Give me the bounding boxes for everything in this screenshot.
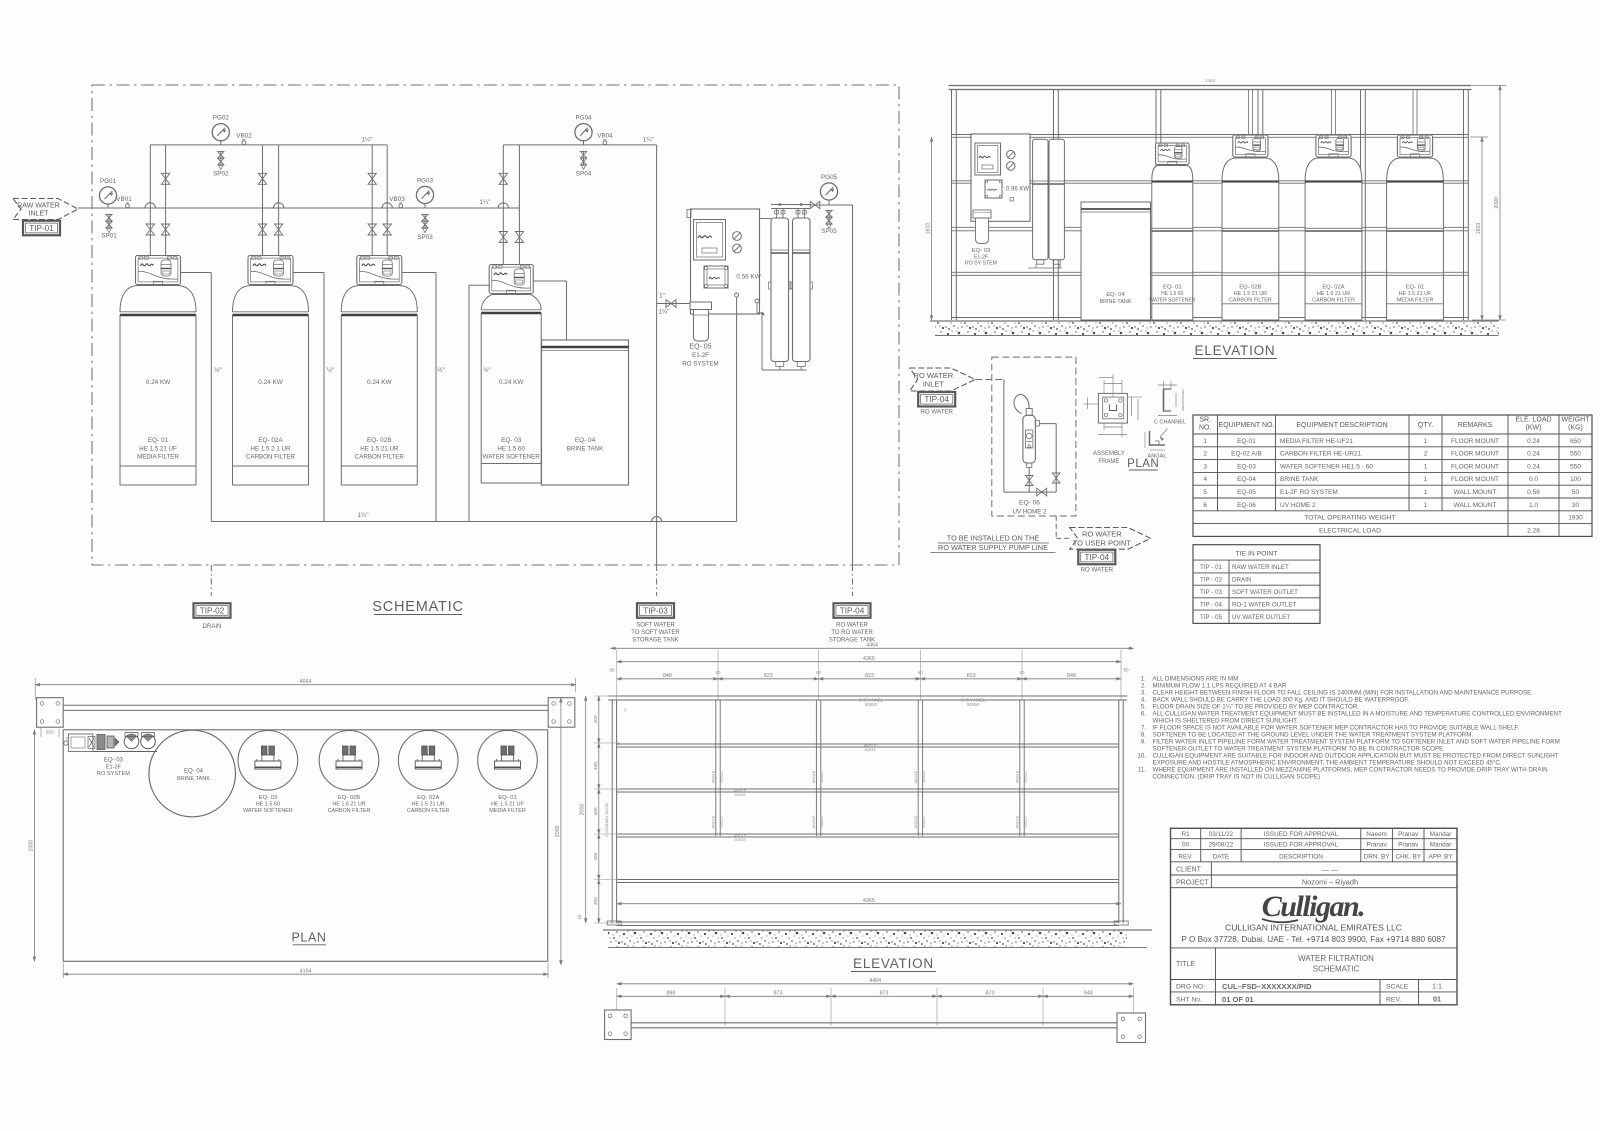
svg-text:BRINE TANK: BRINE TANK: [177, 776, 210, 782]
svg-text:FLOOR MOUNT: FLOOR MOUNT: [1451, 438, 1499, 445]
svg-text:MEDIA FILTER: MEDIA FILTER: [489, 808, 526, 814]
svg-text:TO SOFT WATER: TO SOFT WATER: [631, 630, 680, 636]
svg-text:5.: 5.: [1141, 704, 1146, 711]
svg-text:½": ½": [327, 366, 335, 374]
svg-text:10.: 10.: [1137, 753, 1146, 760]
svg-text:SOFT WATER: SOFT WATER: [636, 623, 675, 629]
svg-text:FILTER WATER INLET PIPELINE FO: FILTER WATER INLET PIPELINE FORM WATER T…: [1153, 739, 1560, 746]
svg-text:C CHANNEL 50X50: C CHANNEL 50X50: [605, 803, 609, 837]
sample point SP02: [213, 151, 229, 178]
svg-text:948: 948: [1084, 991, 1093, 997]
svg-text:DESCRIPTION: DESCRIPTION: [1279, 854, 1323, 861]
svg-text:PG02: PG02: [213, 115, 230, 122]
svg-text:EQ- 03: EQ- 03: [1163, 285, 1181, 291]
svg-text:0.56: 0.56: [1527, 489, 1540, 496]
flag RAW WATER INLET: [13, 199, 78, 220]
pipe drain lateral EQ-02B: [402, 273, 445, 522]
elevation brine tank EQ-04: [1081, 202, 1151, 320]
tie-in TIP-04 box: [829, 603, 875, 643]
svg-text:WATER SOFTENER HE1.5 - 60: WATER SOFTENER HE1.5 - 60: [1280, 463, 1373, 470]
schematic boundary (dash-dot border): [92, 85, 899, 565]
svg-text:50X25: 50X25: [820, 817, 824, 828]
svg-text:UV HOME 2: UV HOME 2: [1012, 509, 1047, 516]
svg-text:10: 10: [577, 914, 582, 919]
svg-text:PG04: PG04: [575, 115, 592, 122]
svg-text:1¼": 1¼": [480, 199, 491, 206]
pipe membrane top manifold: [771, 203, 823, 218]
tie-in TIP-01: [23, 221, 60, 236]
elevation frame top beam: [949, 78, 1472, 90]
svg-text:HE 1.5 21 UF: HE 1.5 21 UF: [1399, 291, 1432, 297]
tie-in TIP-04 (user point): [1078, 550, 1115, 574]
svg-text:EQ-01: EQ-01: [1237, 438, 1256, 445]
svg-text:1": 1": [659, 293, 665, 300]
cartridge prefilter EQ-05: [682, 302, 718, 368]
svg-text:TO RO WATER: TO RO WATER: [831, 630, 873, 636]
plan platform rectangle: [63, 730, 548, 962]
svg-text:CUL–FSD–XXXXXXX/PID: CUL–FSD–XXXXXXX/PID: [1222, 982, 1312, 991]
svg-text:TIP - 03: TIP - 03: [1200, 589, 1222, 596]
svg-text:0.24 KW: 0.24 KW: [258, 379, 283, 386]
svg-text:4164: 4164: [300, 968, 312, 974]
tie-in drop TIP-02: [210, 565, 212, 596]
frame dimension 4464: [611, 643, 1134, 650]
elevation ground hatch: [930, 321, 1499, 336]
svg-text:PG05: PG05: [821, 174, 838, 181]
svg-text:TIP - 01: TIP - 01: [1200, 564, 1222, 571]
pressure gauge PG03: [416, 178, 433, 209]
svg-text:50X50: 50X50: [865, 702, 878, 707]
svg-text:SCALE: SCALE: [1386, 984, 1409, 991]
svg-text:PG01: PG01: [100, 178, 117, 185]
svg-text:EQUIPMENT NO.: EQUIPMENT NO.: [1219, 422, 1275, 429]
svg-text:VB01: VB01: [116, 196, 132, 203]
c-channel detail: [1154, 381, 1186, 426]
note to be installed: [931, 534, 1056, 553]
svg-text:RO WATER: RO WATER: [920, 409, 953, 416]
beam plan rail: [625, 1023, 1129, 1031]
svg-text:SP02: SP02: [213, 171, 229, 178]
pipe risers tank EQ-02A: [258, 145, 283, 256]
UV unit boundary dashed box: [992, 357, 1076, 516]
angle detail: [1145, 429, 1168, 460]
svg-text:ALL CULLIGAN WATER TREATMENT E: ALL CULLIGAN WATER TREATMENT EQUIPMENT M…: [1153, 711, 1563, 718]
plan top rail: [47, 705, 561, 710]
svg-text:2000: 2000: [580, 804, 586, 816]
tie-in TIP-02 box: [194, 603, 231, 630]
svg-text:EQ- 01: EQ- 01: [498, 795, 516, 801]
title PLAN detail: [1127, 458, 1159, 470]
svg-text:50X25: 50X25: [1024, 772, 1028, 783]
valve break VB02: [236, 132, 252, 144]
svg-text:CULLIGAN INTERNATIONAL EMIRATE: CULLIGAN INTERNATIONAL EMIRATES LLC: [1225, 923, 1402, 933]
svg-text:HE 1.5 21 UR: HE 1.5 21 UR: [332, 802, 365, 808]
svg-text:2: 2: [1203, 451, 1207, 458]
tie-in drop TIP-03: [656, 565, 658, 596]
svg-text:EQ- 01: EQ- 01: [148, 437, 169, 444]
svg-text:1:1: 1:1: [1432, 982, 1442, 991]
svg-text:50: 50: [609, 668, 615, 673]
svg-text:ELEVATION: ELEVATION: [1195, 343, 1276, 358]
svg-text:ASSEMBLY: ASSEMBLY: [1093, 451, 1125, 457]
svg-text:Nozomi – Riyadh: Nozomi – Riyadh: [1302, 878, 1358, 887]
svg-text:1610: 1610: [926, 223, 932, 235]
svg-text:7.: 7.: [1141, 725, 1146, 732]
svg-text:TO BE INSTALLED ON THE: TO BE INSTALLED ON THE: [947, 534, 1040, 543]
svg-text:DRAIN: DRAIN: [1232, 577, 1251, 584]
svg-text:EQ- 04: EQ- 04: [184, 769, 204, 775]
tank EQ-01 media filter: [120, 256, 196, 486]
svg-text:CARBON FILTER: CARBON FILTER: [1229, 297, 1272, 303]
svg-text:HE 1.5 21 UR: HE 1.5 21 UR: [412, 802, 445, 808]
svg-text:NO.: NO.: [1199, 425, 1212, 432]
svg-text:898: 898: [666, 991, 675, 997]
svg-text:CULLIGAN EQUIPMENT ARE SUITABL: CULLIGAN EQUIPMENT ARE SUITABLE FOR INDO…: [1153, 753, 1559, 760]
svg-text:INLET: INLET: [923, 379, 945, 388]
svg-text:0.0: 0.0: [1529, 476, 1538, 483]
frame end posts: [607, 700, 1128, 925]
svg-text:2000: 2000: [555, 825, 561, 837]
svg-text:WATER FILTRATION: WATER FILTRATION: [1298, 954, 1374, 963]
svg-text:1: 1: [1424, 438, 1428, 445]
svg-text:400: 400: [593, 852, 599, 860]
pipe drain lateral EQ-01: [181, 273, 222, 522]
plan RO pump assembly: [64, 733, 157, 752]
svg-text:C CHANNEL: C CHANNEL: [1154, 420, 1186, 426]
svg-text:6: 6: [1203, 502, 1207, 509]
svg-text:HE 1.5 2 1 UR: HE 1.5 2 1 UR: [251, 446, 291, 453]
valve break VB01: [116, 196, 132, 208]
pressure gauge PG01: [99, 178, 116, 208]
plan tank circle EQ-02A: [398, 731, 458, 815]
svg-text:1¼": 1¼": [643, 136, 654, 143]
svg-text:DRG NO:: DRG NO:: [1176, 984, 1205, 991]
svg-text:60: 60: [716, 670, 721, 675]
svg-text:1930: 1930: [1568, 515, 1583, 522]
sample point SP03: [417, 214, 433, 241]
elevation carbon filter EQ-02B: [1222, 90, 1279, 321]
pipe soft water feed riser: [656, 145, 658, 565]
tie in point table: [1193, 545, 1320, 624]
svg-text:400: 400: [593, 762, 599, 770]
beam plan end plate right: [1117, 1013, 1146, 1043]
svg-text:RO WATER SUPPLY PUMP LINE: RO WATER SUPPLY PUMP LINE: [938, 543, 1048, 552]
svg-text:WALL MOUNT: WALL MOUNT: [1454, 502, 1497, 509]
svg-text:TIP - 04: TIP - 04: [1200, 602, 1222, 609]
svg-text:HE 1.5 21 UR: HE 1.5 21 UR: [360, 446, 399, 453]
svg-text:ANGLE: ANGLE: [812, 815, 816, 828]
tank EQ-04 brine tank: [542, 340, 629, 485]
svg-text:3: 3: [1203, 463, 1207, 470]
svg-text:(KG): (KG): [1568, 425, 1583, 432]
pipe RO product to TIP-04: [852, 205, 854, 565]
svg-text:1: 1: [1424, 489, 1428, 496]
svg-text:TO USER POINT: TO USER POINT: [1073, 538, 1132, 547]
svg-text:RO WATER: RO WATER: [836, 623, 868, 629]
svg-text:HE 1.5 21 UF: HE 1.5 21 UF: [139, 446, 177, 453]
svg-text:ISSUED FOR APPROVAL: ISSUED FOR APPROVAL: [1264, 831, 1339, 838]
pipe size label: [361, 136, 372, 143]
plan rail end plate left: [37, 698, 64, 728]
plan dimension 250: [41, 727, 59, 737]
svg-text:APP. BY: APP. BY: [1428, 854, 1453, 861]
svg-text:EQ-04: EQ-04: [1237, 476, 1256, 483]
svg-text:50X25: 50X25: [922, 772, 926, 783]
svg-text:823: 823: [967, 673, 976, 679]
svg-text:400: 400: [593, 715, 599, 723]
svg-text:CARBON FILTER: CARBON FILTER: [246, 453, 296, 460]
svg-text:ANGLE: ANGLE: [1016, 815, 1020, 828]
plan RO pump labels: [97, 758, 130, 778]
svg-text:CARBON FILTER: CARBON FILTER: [407, 808, 450, 814]
svg-text:TIP-04: TIP-04: [840, 607, 865, 616]
membrane vessels: [769, 218, 813, 367]
pipe RO water into UV: [975, 380, 1004, 493]
svg-text:4365: 4365: [863, 656, 875, 662]
pipe risers softener EQ-03: [499, 145, 523, 265]
svg-text:CHK. BY: CHK. BY: [1395, 854, 1421, 861]
svg-text:PROJECT: PROJECT: [1176, 880, 1209, 887]
svg-text:1¼": 1¼": [659, 309, 670, 316]
elevation RO wall panel: [971, 134, 1030, 221]
svg-text:EQ- 02A: EQ- 02A: [1322, 285, 1344, 291]
pipe RO drain: [736, 297, 738, 522]
title block: [1171, 828, 1458, 1005]
svg-text:RAW WATER INLET: RAW WATER INLET: [1232, 564, 1289, 571]
svg-text:CARBON FILTER: CARBON FILTER: [355, 453, 405, 460]
RO system panel EQ-05: [687, 209, 762, 314]
pipe drain manifold: [211, 512, 736, 522]
elevation softener EQ-03: [1149, 143, 1196, 320]
pipe size label: [643, 136, 654, 143]
svg-text:INLET: INLET: [29, 211, 50, 218]
sample point SP01: [101, 214, 117, 240]
svg-text:½": ½": [437, 366, 445, 374]
svg-text:1603: 1603: [1476, 223, 1482, 235]
svg-text:RO SY STEM: RO SY STEM: [965, 261, 997, 267]
svg-text:MEDIA FILTER: MEDIA FILTER: [137, 453, 179, 460]
svg-text:CARBON FILTER HE-UR21: CARBON FILTER HE-UR21: [1280, 451, 1362, 458]
general notes: [1137, 676, 1562, 781]
beam plan end plate left: [605, 1010, 632, 1040]
svg-text:9.: 9.: [1141, 739, 1146, 746]
pipe drain lateral EQ-03 softener: [469, 285, 491, 521]
pressure gauge PG02: [212, 115, 229, 145]
svg-text:½": ½": [214, 366, 222, 374]
svg-text:E1-2F RO SYSTEM: E1-2F RO SYSTEM: [1280, 489, 1338, 496]
svg-text:ANGLE: ANGLE: [914, 770, 918, 783]
svg-text:MINIMUM FLOW 1.1 LPS REQUIRED: MINIMUM FLOW 1.1 LPS REQUIRED AT 4 BAR: [1153, 683, 1287, 690]
svg-text:TITLE: TITLE: [1176, 961, 1195, 968]
svg-text:E1-2F: E1-2F: [974, 254, 988, 260]
svg-text:BRINE TANK: BRINE TANK: [1280, 476, 1319, 483]
svg-text:848: 848: [1067, 673, 1076, 679]
svg-text:823: 823: [764, 673, 773, 679]
svg-text:E1-2F: E1-2F: [692, 352, 709, 359]
svg-text:4464: 4464: [869, 978, 881, 984]
svg-text:EQ-06: EQ-06: [1237, 502, 1256, 509]
svg-text:1¼": 1¼": [361, 136, 372, 143]
svg-text:EQ- 06: EQ- 06: [1019, 500, 1040, 507]
svg-text:RO-1 WATER OUTLET: RO-1 WATER OUTLET: [1232, 602, 1297, 609]
svg-text:FRAME: FRAME: [1098, 459, 1119, 465]
svg-text:HE 1.5 60: HE 1.5 60: [256, 802, 280, 808]
svg-text:CARBON FILTER: CARBON FILTER: [1312, 297, 1355, 303]
pressure gauge PG04: [575, 115, 592, 145]
frame dimension chain: [609, 650, 1129, 700]
svg-text:UV WATER OUTLET: UV WATER OUTLET: [1232, 614, 1290, 621]
svg-text:EQ-05: EQ-05: [1237, 489, 1256, 496]
svg-text:Culligan.: Culligan.: [1262, 890, 1364, 923]
svg-text:30: 30: [1572, 502, 1580, 509]
frame intermediate posts: [716, 700, 1024, 836]
svg-text:WHERE EQUIPMENT ARE INSTALLED: WHERE EQUIPMENT ARE INSTALLED ON MEZZANI…: [1153, 767, 1548, 774]
svg-text:50: 50: [1572, 489, 1580, 496]
svg-text:0.24 KW: 0.24 KW: [146, 379, 171, 386]
svg-text:60: 60: [816, 670, 821, 675]
svg-text:4: 4: [1203, 476, 1207, 483]
plan tank circle EQ-03: [238, 731, 298, 815]
pipe outlet manifold (filters): [150, 144, 387, 146]
title PLAN bottom left: [291, 931, 326, 945]
svg-text:Mandar: Mandar: [1430, 831, 1453, 838]
svg-text:TIP - 02: TIP - 02: [1200, 577, 1222, 584]
svg-text:QTY.: QTY.: [1418, 422, 1433, 429]
frame dimension 4365 lower: [617, 898, 1121, 905]
svg-text:50X25: 50X25: [720, 817, 724, 828]
svg-text:EQ- 01: EQ- 01: [1406, 285, 1424, 291]
plan dimension 2000 left: [28, 730, 35, 962]
svg-text:2000: 2000: [1494, 197, 1500, 209]
svg-text:PLAN: PLAN: [291, 931, 326, 945]
svg-text:WATER SOFTENER: WATER SOFTENER: [1149, 297, 1196, 303]
svg-text:PG03: PG03: [417, 178, 434, 185]
svg-text:2.28: 2.28: [1527, 527, 1540, 534]
pipe risers tank EQ-01: [146, 145, 170, 256]
svg-text:400: 400: [593, 807, 599, 815]
frame member labels: [605, 698, 1028, 843]
frame dimension 4365: [617, 656, 1121, 663]
title ELEVATION top right: [1193, 343, 1277, 359]
svg-text:EQ- 03: EQ- 03: [501, 437, 522, 444]
svg-text:WEIGHT: WEIGHT: [1562, 417, 1591, 424]
elevation dimension 1603: [1470, 137, 1488, 320]
svg-text:50X25: 50X25: [865, 748, 876, 752]
svg-text:HE 1.5 60: HE 1.5 60: [497, 446, 525, 453]
svg-text:REV.: REV.: [1178, 854, 1193, 861]
svg-text:R1: R1: [1182, 831, 1191, 838]
svg-text:EQ- 03: EQ- 03: [104, 758, 124, 764]
svg-text:873: 873: [880, 991, 889, 997]
svg-text:DRAIN: DRAIN: [203, 624, 222, 630]
pipe raw water main line: [78, 207, 519, 209]
pipe softener to brine tank: [533, 281, 566, 340]
beam plan dimension chain: [617, 988, 1134, 1026]
svg-text:VB04: VB04: [597, 132, 613, 139]
svg-text:50X25: 50X25: [720, 772, 724, 783]
svg-text:TIP-04: TIP-04: [1085, 553, 1110, 562]
svg-text:0.24 KW: 0.24 KW: [367, 379, 392, 386]
svg-text:EQ- 02A: EQ- 02A: [417, 795, 439, 801]
svg-text:Pranav: Pranav: [1398, 831, 1419, 838]
svg-text:WHICH IS SHELTERED FROM DIRECT: WHICH IS SHELTERED FROM DIRECT SUNLIGHT.: [1153, 718, 1299, 725]
svg-text:0.56 KW: 0.56 KW: [736, 274, 761, 281]
beam plan dimension 4464: [617, 978, 1134, 985]
svg-text:50X25: 50X25: [735, 838, 746, 842]
svg-text:100: 100: [1570, 476, 1581, 483]
UV lamp EQ-06: [1014, 394, 1039, 467]
svg-text:EQ- 02B: EQ- 02B: [1239, 285, 1261, 291]
svg-text:ELECTRICAL LOAD: ELECTRICAL LOAD: [1319, 527, 1381, 534]
flag RO WATER TO USER POINT: [1070, 528, 1151, 550]
svg-text:ANGLE: ANGLE: [712, 770, 716, 783]
svg-text:50X25: 50X25: [1024, 817, 1028, 828]
svg-text:TIP-02: TIP-02: [200, 607, 225, 616]
svg-text:SCHEMATIC: SCHEMATIC: [372, 599, 464, 615]
tie-in TIP-03 box: [631, 603, 680, 643]
svg-text:SOFT WATER OUTLET: SOFT WATER OUTLET: [1232, 589, 1298, 596]
svg-text:SOFTENER TO BE LOCATED AT THE: SOFTENER TO BE LOCATED AT THE GROUND LEV…: [1153, 732, 1474, 739]
svg-text:RO WATER: RO WATER: [1080, 567, 1113, 574]
svg-text:CONNECTION. (DRIP TRAY IS NOT: CONNECTION. (DRIP TRAY IS NOT IN CULLIGA…: [1153, 774, 1321, 781]
UV labels: [1012, 500, 1047, 516]
svg-text:1: 1: [1424, 463, 1428, 470]
svg-text:TIP - 05: TIP - 05: [1200, 614, 1222, 621]
svg-text:RO WATER: RO WATER: [914, 371, 954, 380]
plan tank circle EQ-02B: [319, 731, 379, 815]
elevation frame rails: [952, 135, 1469, 318]
elevation media filter EQ-01: [1387, 90, 1444, 321]
svg-text:ALL DIMENSIONS ARE IN MM: ALL DIMENSIONS ARE IN MM: [1153, 676, 1239, 683]
valve RO feed: [657, 293, 691, 316]
svg-text:823: 823: [865, 673, 874, 679]
pipe UV outlet to user point: [1056, 516, 1070, 539]
valve break VB04: [597, 132, 613, 144]
svg-text:CLIENT: CLIENT: [1176, 867, 1202, 874]
svg-text:TIP-01: TIP-01: [29, 224, 54, 233]
svg-text:RO SYSTEM: RO SYSTEM: [682, 361, 718, 368]
svg-text:ELEVATION: ELEVATION: [853, 956, 934, 971]
svg-text:1: 1: [1424, 476, 1428, 483]
svg-text:550: 550: [1570, 451, 1581, 458]
svg-text:½": ½": [483, 366, 491, 374]
svg-text:CARBON FILTER: CARBON FILTER: [328, 808, 371, 814]
svg-text:4365: 4365: [863, 898, 875, 904]
svg-text:1.0: 1.0: [1529, 502, 1538, 509]
title SCHEMATIC: [372, 599, 464, 615]
plan rail end plate right: [548, 698, 575, 728]
tank EQ-02B carbon filter: [341, 256, 417, 486]
svg-text:ELE. LOAD: ELE. LOAD: [1515, 417, 1551, 424]
sample point SP05: [821, 210, 837, 235]
elevation membrane vessels: [1028, 139, 1064, 268]
svg-text:BRINE TANK: BRINE TANK: [567, 446, 604, 453]
frame ground hatch: [603, 930, 1152, 948]
svg-text:50X25: 50X25: [735, 793, 746, 797]
svg-text:FLOOR MOUNT: FLOOR MOUNT: [1451, 451, 1499, 458]
plan dimension 2000 right: [555, 698, 562, 965]
svg-text:EQ- 03: EQ- 03: [972, 248, 990, 254]
svg-text:Pranav: Pranav: [1398, 842, 1419, 849]
tank EQ-03 water softener: [481, 265, 541, 484]
svg-text:3.: 3.: [1141, 690, 1146, 697]
svg-text:FLOOR MOUNT: FLOOR MOUNT: [1451, 476, 1499, 483]
svg-text:60: 60: [1020, 670, 1025, 675]
svg-text:PLAN: PLAN: [1127, 458, 1159, 470]
svg-text:00: 00: [1182, 842, 1190, 849]
svg-text:1: 1: [1203, 438, 1207, 445]
elevation RO labels: [965, 248, 997, 267]
